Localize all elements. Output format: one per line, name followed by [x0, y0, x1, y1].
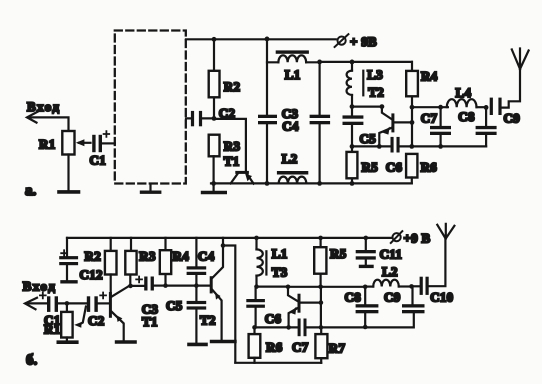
capacitor C7 (b) — [292, 319, 309, 355]
junction (T3 collector, b) — [319, 300, 324, 305]
wire: L3 to T2 base (a) — [352, 105, 382, 107]
junction (C8 bottom, b) — [363, 325, 368, 330]
svg-text:C6: C6 — [386, 160, 403, 175]
junction (R4 bottom / output wire, a) — [410, 105, 415, 110]
svg-text:T3: T3 — [272, 265, 288, 280]
resistor R6 (b) — [249, 327, 283, 362]
inductor L1 (a) — [267, 50, 320, 82]
svg-text:R5: R5 — [362, 160, 379, 175]
svg-text:L3: L3 — [367, 67, 383, 82]
svg-text:C11: C11 — [380, 247, 403, 262]
wire: base of T1 (a) — [214, 119, 246, 171]
wire: input to R1 top (a) — [29, 117, 69, 131]
svg-text:C10: C10 — [430, 289, 453, 304]
wire: C10 to antenna (b) — [429, 239, 446, 286]
inductor L4 (a) — [412, 85, 486, 107]
capacitor C4 (a) — [282, 115, 330, 134]
potentiometer R1 (b) — [44, 303, 86, 337]
svg-text:R4: R4 — [173, 248, 190, 263]
junction (T3 emitter, b) — [286, 325, 291, 330]
resistor R5 (b) — [314, 238, 346, 287]
wire: tank left column (a) — [266, 39, 268, 184]
junction (rail / C11, b) — [364, 236, 369, 241]
junction (C7 top, a) — [438, 105, 443, 110]
junction (C8 top, a) — [484, 105, 489, 110]
svg-text:R5: R5 — [330, 246, 347, 261]
capacitor C6 (a) — [386, 137, 403, 175]
capacitor C3 (a) — [258, 106, 298, 124]
junction (C6 bottom, b) — [252, 325, 257, 330]
resistor R7 (b) — [315, 327, 345, 362]
svg-text:R3: R3 — [224, 139, 241, 154]
svg-text:C7: C7 — [292, 339, 309, 354]
svg-text:T2: T2 — [200, 312, 216, 327]
svg-text:+9 В: +9 В — [404, 230, 431, 245]
junction (T2 base tap, a) — [380, 104, 385, 109]
capacitor C9 (b) — [384, 286, 425, 313]
junction (R7 top, b) — [319, 325, 324, 330]
svg-text:C9: C9 — [504, 110, 521, 125]
ground (under T2, b) — [212, 340, 235, 344]
junction (T2 collector, a) — [410, 120, 415, 125]
svg-text:T2: T2 — [368, 85, 384, 100]
power terminal +9В (b) — [391, 230, 431, 245]
potentiometer R1 (a) — [39, 131, 91, 155]
antenna (a) — [512, 49, 529, 70]
svg-text:C5: C5 — [166, 298, 183, 313]
transistor T3 (b) — [288, 287, 321, 328]
power terminal +9В (a) — [335, 34, 377, 49]
svg-text:+ 9В: + 9В — [350, 34, 377, 49]
junction (T1 collector / R3 / C3, b) — [128, 284, 133, 289]
svg-text:б.: б. — [26, 353, 38, 369]
svg-text:T1: T1 — [224, 153, 240, 168]
capacitor C1 (a) — [90, 131, 110, 167]
svg-text:L2: L2 — [282, 151, 298, 166]
resistor R6 (a) — [406, 154, 437, 184]
junction (R4 bottom, b) — [163, 283, 168, 288]
antenna (b) — [437, 224, 454, 239]
capacitor C8 (b) — [345, 287, 379, 327]
svg-text:R1: R1 — [44, 322, 61, 337]
junction (T3 base tap, b) — [286, 285, 291, 290]
capacitor C8 (a) — [458, 107, 496, 146]
svg-text:C9: C9 — [384, 289, 401, 304]
capacitor C12 (b) — [59, 238, 103, 282]
inductor L2 (b) — [365, 264, 411, 286]
transistor T2 (b) — [211, 246, 223, 340]
svg-text:C5: C5 — [360, 131, 377, 146]
svg-text:R2: R2 — [85, 248, 102, 263]
junction (rail / L1, b) — [254, 236, 259, 241]
svg-text:L1: L1 — [272, 246, 288, 261]
resistor R4 (a) — [406, 62, 437, 146]
inductor L3 (a) — [347, 62, 384, 107]
transistor T1 (b) — [110, 275, 157, 341]
resistor R3 (b) — [125, 238, 156, 286]
svg-text:R1: R1 — [39, 137, 56, 152]
wire: input to C1 (b) — [28, 302, 47, 304]
transistor T1 (a) — [224, 153, 254, 183]
capacitor C11 (b) — [356, 238, 402, 267]
svg-text:C4: C4 — [198, 248, 215, 263]
junction (L1 bottom, b) — [254, 284, 259, 289]
capacitor C10 (b) — [412, 277, 454, 305]
node: input Вход (b) — [23, 278, 57, 309]
wire: emitter net (a) — [352, 145, 486, 147]
svg-text:L4: L4 — [456, 85, 472, 100]
svg-text:R6: R6 — [421, 160, 438, 175]
junction (T2 emitter / C6, a) — [377, 144, 382, 149]
wire: ground rail (a) — [211, 182, 412, 184]
junction (C2/R2/R3, a) — [212, 116, 217, 121]
wire: R4 to T2 base (b) — [166, 285, 210, 287]
junction (tank right / ground rail, a) — [317, 181, 322, 186]
svg-text:R4: R4 — [421, 69, 438, 84]
ground (under block, a) — [142, 184, 160, 192]
ground (under R1, a) — [59, 155, 79, 192]
svg-text:а.: а. — [25, 183, 37, 199]
junction (rail / R5, b) — [318, 236, 323, 241]
svg-text:R2: R2 — [224, 79, 241, 94]
capacitor C5 (b) — [166, 286, 206, 345]
junction (rail a / tank) — [265, 37, 270, 42]
svg-text:C2: C2 — [88, 313, 105, 328]
junction (R5 bottom, b) — [318, 285, 323, 290]
svg-text:R6: R6 — [266, 339, 283, 354]
wire: tank right column (a) — [319, 62, 321, 183]
junction (tank left / ground rail, a) — [265, 181, 270, 186]
svg-text:L2: L2 — [382, 264, 398, 279]
capacitor C7 (a) — [421, 107, 451, 146]
capacitor C5 (a) — [343, 107, 377, 147]
junction (L3 bottom, a) — [350, 104, 355, 109]
junction (R5 / ground rail, a) — [350, 181, 355, 186]
junction (L2 / C9 / C10, b) — [409, 284, 414, 289]
junction (rail a / R2) — [212, 37, 217, 42]
inductor L1 (b) — [257, 238, 288, 287]
junction (L3 top, a) — [350, 60, 355, 65]
capacitor C9 (a) — [490, 98, 520, 126]
ground (main, a) — [203, 183, 226, 192]
wire: C9 to antenna (a) — [502, 69, 520, 108]
junction (C5/R5, a) — [350, 144, 355, 149]
wire: emitter/ground net (b) — [255, 313, 414, 327]
svg-text:C8: C8 — [458, 109, 475, 124]
svg-text:R7: R7 — [329, 340, 346, 355]
wire: bottom rail (b) — [235, 362, 321, 364]
junction (C8 top, b) — [363, 285, 368, 290]
capacitor C6 (b) — [246, 287, 281, 328]
wire: +9V rail (a) — [186, 38, 336, 40]
dashed block (a) — [115, 31, 186, 184]
wire: oscillator output net (b) — [257, 286, 366, 288]
junction (C4/C5 tap, b) — [194, 283, 199, 288]
resistor R2 (a) — [209, 39, 241, 118]
svg-text:C1: C1 — [90, 153, 107, 168]
junction (R6 top, a) — [409, 144, 414, 149]
wire: C2 to T1 base (b) — [98, 302, 109, 304]
wire: rail stub to long column (b) — [223, 238, 235, 363]
svg-text:Вход: Вход — [23, 278, 57, 293]
wire: C1 to C2 (b) — [58, 302, 87, 304]
svg-text:C7: C7 — [421, 111, 438, 126]
svg-text:R3: R3 — [139, 248, 156, 263]
wire: +9V feed to stage 2 (a) — [320, 61, 412, 63]
node: input Вход (a) — [27, 99, 61, 123]
resistor R4 (b) — [160, 238, 189, 286]
junction (rail stub, b) — [221, 243, 226, 248]
wire: C1 to block (a) — [102, 142, 115, 144]
resistor R3 (a) — [209, 135, 241, 184]
inductor L2 (a) — [277, 151, 308, 183]
ground (under T1, b) — [117, 340, 135, 344]
svg-text:L1: L1 — [285, 67, 301, 82]
junction (C7 bottom, a) — [438, 144, 443, 149]
ground (under R1, b) — [58, 338, 77, 343]
resistor R2 (b) — [85, 238, 117, 275]
svg-text:Вход: Вход — [27, 99, 61, 114]
transistor T2 (a) — [379, 107, 412, 147]
capacitor C2 (b) — [87, 293, 106, 329]
resistor R5 (a) — [347, 146, 379, 183]
wire: +9V rail (b) — [67, 237, 391, 239]
capacitor C1 (b) — [40, 293, 61, 328]
svg-text:C3: C3 — [142, 302, 159, 317]
capacitor C4 (b) — [187, 238, 215, 286]
wire: R5 column down (b) — [320, 287, 322, 328]
junction (L1/tank right, a) — [317, 60, 322, 65]
svg-text:C12: C12 — [80, 267, 103, 282]
junction (R1 top, b) — [65, 301, 70, 306]
svg-text:C6: C6 — [265, 311, 282, 326]
capacitor C3 (b) — [131, 277, 166, 317]
svg-text:C4: C4 — [282, 119, 299, 134]
junction (R3/ground, a) — [211, 181, 216, 186]
capacitor C2 (a) — [186, 105, 235, 126]
svg-text:C8: C8 — [345, 289, 362, 304]
